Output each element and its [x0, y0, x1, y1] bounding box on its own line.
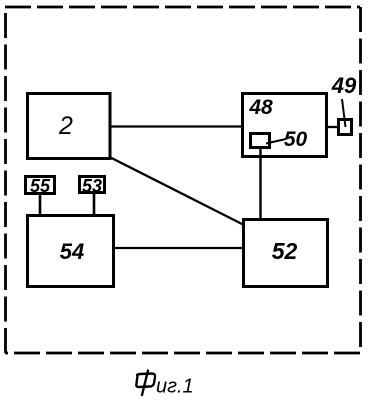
svg-text:52: 52: [272, 238, 298, 264]
leader line 50: [266, 139, 286, 144]
block 2: [28, 94, 111, 159]
svg-text:50: 50: [284, 128, 308, 151]
leader line 49: [342, 99, 346, 127]
indicator box 50: [251, 134, 270, 148]
wire box2 to box48: [111, 125, 242, 127]
wire box53 stem: [93, 194, 96, 215]
block 48: [243, 94, 327, 157]
block 52: [244, 220, 328, 287]
block 49: [339, 120, 352, 135]
wire box48 to box49: [327, 126, 339, 128]
wire box54 to box52: [114, 247, 243, 249]
svg-text:49: 49: [331, 73, 357, 98]
svg-text:53: 53: [82, 176, 102, 196]
wire box48 via box50 down to box52: [259, 147, 261, 219]
svg-text:иг.1: иг.1: [156, 376, 194, 398]
svg-text:55: 55: [30, 176, 51, 196]
svg-text:48: 48: [248, 96, 273, 119]
wire box55 stem: [39, 194, 42, 215]
wire diagonal box2 to box52: [111, 158, 244, 225]
block 53: [80, 177, 105, 193]
svg-text:54: 54: [60, 239, 84, 264]
svg-text:2: 2: [58, 112, 73, 140]
caption letter F (Cyrillic Ef): [136, 371, 155, 396]
block 55: [26, 177, 55, 194]
block 54: [28, 216, 114, 287]
